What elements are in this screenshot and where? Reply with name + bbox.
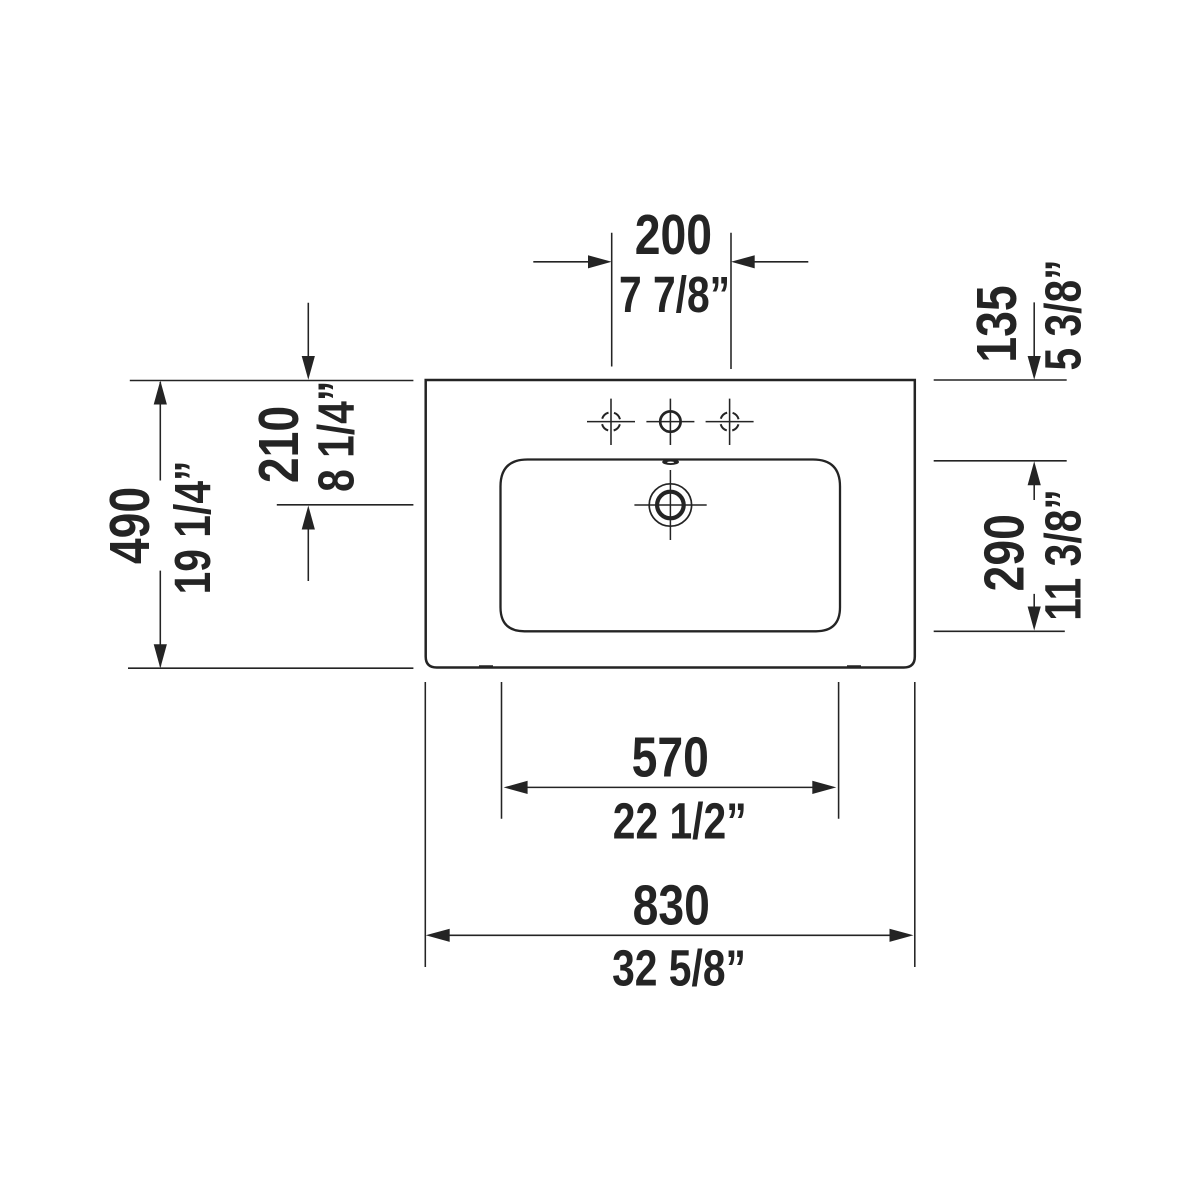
- svg-text:5 3/8”: 5 3/8”: [1034, 259, 1091, 370]
- svg-text:11 3/8”: 11 3/8”: [1034, 489, 1091, 621]
- svg-text:7 7/8”: 7 7/8”: [619, 266, 730, 323]
- svg-text:570: 570: [632, 725, 709, 788]
- svg-text:19 1/4”: 19 1/4”: [163, 461, 220, 595]
- svg-text:8 1/4”: 8 1/4”: [307, 381, 364, 492]
- svg-text:830: 830: [633, 873, 710, 936]
- svg-text:200: 200: [635, 203, 712, 266]
- svg-text:210: 210: [247, 406, 310, 483]
- svg-text:22 1/2”: 22 1/2”: [613, 792, 747, 849]
- svg-text:32 5/8”: 32 5/8”: [612, 939, 746, 996]
- svg-text:490: 490: [97, 487, 160, 564]
- svg-text:290: 290: [972, 514, 1035, 591]
- svg-text:135: 135: [965, 285, 1028, 362]
